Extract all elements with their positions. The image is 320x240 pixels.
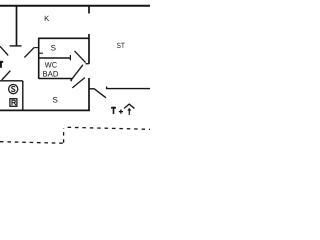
room label T left edge (cut off): [0, 61, 3, 63]
label T plus arrow: T: [111, 107, 116, 109]
door jamb tick: [86, 63, 90, 65]
arrow symbol head: [128, 109, 131, 111]
svg-text:BAD: BAD: [43, 69, 59, 78]
wall left room right: [22, 81, 24, 111]
jamb tick up: [69, 55, 71, 60]
door leaf hall to WC: [24, 47, 34, 57]
door leaf room S to hall: [71, 65, 83, 81]
door leaf hall to ST: [75, 51, 86, 63]
symbol circled S: [9, 85, 18, 94]
door leaf left mid: [2, 71, 11, 80]
jamb tick down: [70, 78, 72, 81]
door jamb stub right: [39, 52, 43, 54]
wall middle vertical upper stub: [88, 5, 90, 14]
wall ST bottom left stub: [89, 88, 95, 90]
dashed boundary vertical jog: [63, 128, 65, 143]
wall S box bottom: [39, 57, 71, 59]
symbol boxed R: [10, 99, 17, 107]
dashed boundary left: [0, 142, 63, 144]
wall ST bottom right: [107, 88, 150, 90]
svg-text:S: S: [53, 96, 58, 105]
door leaf top-left: [0, 46, 8, 55]
wall WC bottom: [39, 78, 72, 80]
wall end cap: [10, 45, 22, 47]
door jamb stub left: [34, 47, 39, 49]
wall left room top: [0, 80, 23, 82]
wall middle vertical mid segment: [88, 34, 90, 64]
arrow symbol caret: [124, 104, 134, 108]
door leaf ST bottom: [94, 89, 106, 98]
wall S/WC left: [38, 38, 40, 79]
wall top exterior: [0, 5, 150, 7]
wall bottom exterior: [0, 109, 90, 111]
wall end tick: [106, 86, 108, 89]
wall S box top: [39, 37, 89, 39]
arrow symbol stem: [128, 109, 130, 115]
svg-text:S: S: [51, 43, 56, 52]
label plus sign: [119, 111, 123, 113]
svg-text:K: K: [44, 14, 49, 23]
wall left upper (kitchen left): [16, 5, 18, 46]
wall middle vertical lower segment: [88, 78, 90, 111]
door leaf hall lower: [72, 78, 85, 88]
svg-text:ST: ST: [117, 41, 125, 50]
dashed boundary right: [68, 127, 150, 129]
